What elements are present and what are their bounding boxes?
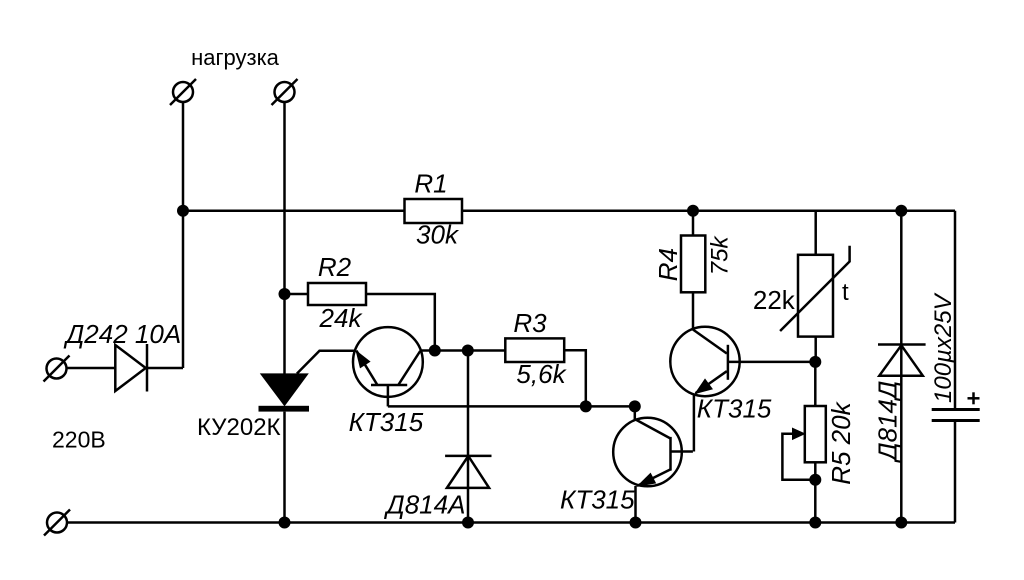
node R4 top junction [687, 205, 699, 217]
svg-text:t: t [842, 279, 849, 306]
node R3 drop junction [580, 400, 592, 412]
svg-text:220В: 220В [52, 427, 106, 453]
potentiometer R5 [814, 362, 817, 406]
wire Q1 collector bus [420, 349, 505, 352]
svg-text:R4: R4 [653, 248, 683, 281]
transistor Q1 KT315 [353, 327, 423, 397]
node R5 bottom [809, 517, 821, 529]
wire terminal to diode [67, 367, 116, 370]
node thyristor bottom [279, 517, 291, 529]
svg-text:Д814А: Д814А [383, 490, 465, 520]
svg-text:5,6k: 5,6k [516, 359, 567, 389]
capacitor C1 100ux25V [954, 211, 957, 410]
node Q2 emitter bottom [630, 517, 642, 529]
zener D814A [467, 351, 470, 523]
node R2 drop junction [429, 345, 441, 357]
wire top bus left segment [183, 210, 405, 213]
node Q3 base junction [809, 356, 821, 368]
svg-text:КТ315: КТ315 [697, 394, 772, 424]
svg-text:R2: R2 [318, 252, 352, 282]
diode D242 [115, 345, 145, 391]
svg-text:30k: 30k [416, 220, 460, 250]
svg-text:R3: R3 [513, 308, 547, 338]
svg-text:22k: 22k [753, 285, 796, 315]
svg-text:КТ315: КТ315 [349, 407, 424, 437]
wire load-left vertical [182, 103, 185, 369]
svg-text:24k: 24k [319, 303, 364, 333]
capacitor plus sign [968, 397, 980, 400]
wire load-right vertical [283, 103, 286, 295]
thyristor KU202K [283, 294, 286, 375]
svg-text:75k: 75k [707, 235, 734, 276]
svg-text:Д814Д: Д814Д [873, 381, 903, 464]
svg-text:100µx25V: 100µx25V [930, 292, 957, 403]
wire R5 wiper [782, 434, 815, 480]
wire bottom bus [67, 521, 956, 524]
svg-text:КТ315: КТ315 [560, 485, 635, 515]
svg-text:Д242 10А: Д242 10А [63, 319, 181, 349]
node D814A top junction [462, 345, 474, 357]
node R2/thyristor junction [279, 288, 291, 300]
resistor R4 [692, 211, 695, 236]
wire R2 to collector node [366, 294, 435, 351]
resistor R1 [405, 199, 463, 223]
node D814D bottom [895, 517, 907, 529]
wire R3 right down [564, 350, 586, 406]
terminal load left [173, 82, 193, 102]
wire base bus y406 [388, 405, 635, 408]
node D814A bottom [462, 517, 474, 529]
resistor R2 [285, 293, 309, 296]
svg-text:R5 20k: R5 20k [826, 400, 856, 484]
terminal load right [275, 82, 295, 102]
zener D814D [900, 211, 903, 523]
wire thyristor gate [297, 351, 357, 374]
resistor R3 [505, 338, 564, 362]
wire top bus right segment [462, 210, 955, 213]
svg-text:R1: R1 [414, 169, 447, 199]
node R5 wiper junction [809, 474, 821, 486]
thermistor 22k [814, 211, 817, 255]
svg-text:нагрузка: нагрузка [191, 45, 280, 70]
terminal 220V bottom [47, 513, 67, 533]
node Q2 collector junction [629, 400, 641, 412]
transistor Q2 KT315 [613, 418, 682, 487]
transistor Q3 KT315 [670, 327, 739, 396]
terminal 220V top [47, 359, 67, 379]
node top-left junction [177, 205, 189, 217]
wire diode to vertical [147, 367, 183, 370]
svg-text:КУ202К: КУ202К [197, 414, 281, 441]
node D814D top junction [895, 205, 907, 217]
